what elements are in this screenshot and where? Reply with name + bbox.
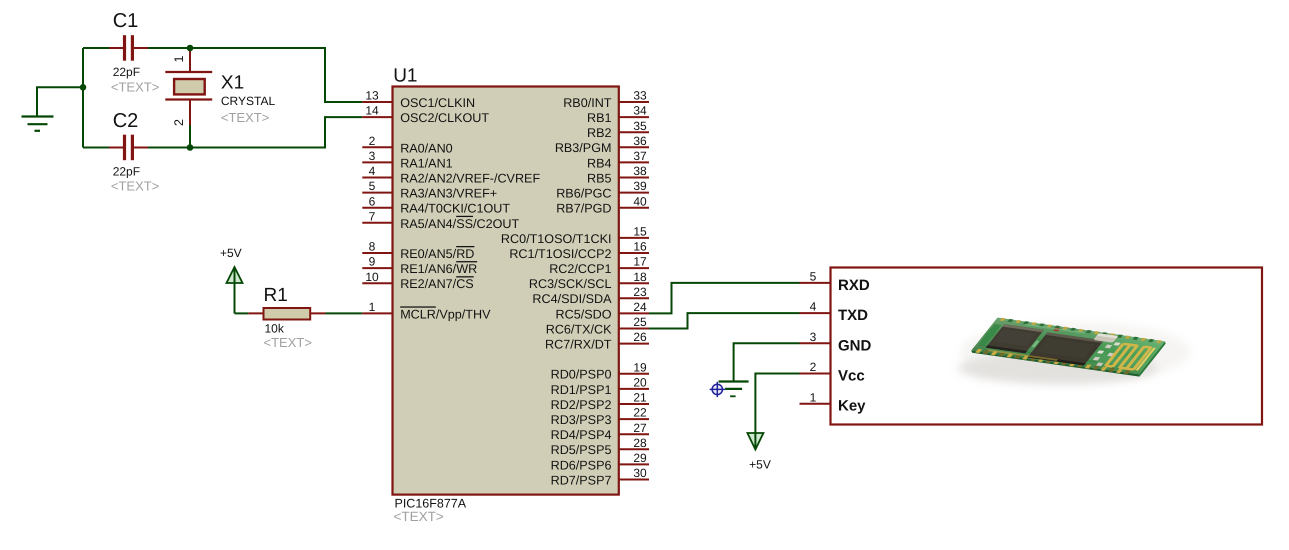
svg-text:9: 9	[369, 255, 376, 269]
module pin 4 TXD	[800, 300, 869, 324]
svg-text:RA2/AN2/VREF-/CVREF: RA2/AN2/VREF-/CVREF	[400, 172, 540, 186]
svg-text:RE0/AN5/RD: RE0/AN5/RD	[400, 247, 474, 261]
svg-text:35: 35	[633, 119, 647, 133]
module pin 3 GND	[800, 330, 872, 354]
svg-text:RD1/PSP1: RD1/PSP1	[551, 383, 612, 397]
svg-text:33: 33	[633, 89, 647, 103]
svg-text:RD6/PSP6: RD6/PSP6	[551, 458, 612, 472]
junction X1 bottom	[187, 144, 194, 151]
wire OSC2 net to pin 14	[190, 117, 362, 147]
U1 pin 7 stub (left)	[362, 209, 519, 230]
svg-text:TXD: TXD	[838, 307, 868, 324]
U1 pin 22 stub (right)	[551, 406, 649, 427]
U1 pin 40 stub (right)	[556, 194, 649, 215]
U1 pin 8 stub (left)	[362, 240, 474, 261]
U1 pin 33 stub (right)	[563, 89, 649, 110]
svg-text:1: 1	[810, 390, 817, 404]
module pin 5 RXD	[800, 270, 870, 294]
U1 pin 15 stub (right)	[501, 225, 649, 246]
svg-text:RC5/SDO: RC5/SDO	[556, 307, 612, 321]
svg-text:1: 1	[172, 56, 186, 63]
svg-text:25: 25	[633, 315, 647, 329]
svg-text:23: 23	[633, 285, 647, 299]
svg-text:22pF: 22pF	[113, 65, 140, 79]
svg-text:RB5: RB5	[587, 171, 612, 185]
svg-text:RA1/AN1: RA1/AN1	[400, 156, 453, 170]
svg-text:Key: Key	[838, 398, 866, 415]
svg-text:15: 15	[633, 225, 647, 239]
U1 pin 14 stub (left)	[362, 104, 489, 125]
svg-text:1: 1	[369, 300, 376, 314]
svg-text:2: 2	[172, 119, 186, 126]
U1 pin 30 stub (right)	[551, 466, 649, 487]
wire C1 right	[148, 47, 190, 49]
wire Vcc pin to +5V	[755, 374, 799, 433]
svg-text:RC6/TX/CK: RC6/TX/CK	[546, 322, 612, 336]
svg-text:C2: C2	[113, 110, 139, 132]
module pin 2 Vcc	[800, 360, 865, 384]
svg-text:<TEXT>: <TEXT>	[221, 110, 269, 125]
U1 pin 34 stub (right)	[587, 104, 649, 125]
wire RC6/TX (pin 25) to TXD	[649, 313, 800, 328]
svg-text:16: 16	[633, 240, 647, 254]
resistor R1	[248, 285, 325, 350]
ground GND2 (module)	[719, 382, 749, 397]
svg-text:RA3/AN3/VREF+: RA3/AN3/VREF+	[400, 187, 497, 201]
svg-text:R1: R1	[264, 285, 288, 306]
U1 pin 29 stub (right)	[551, 451, 649, 472]
svg-text:<TEXT>: <TEXT>	[394, 509, 444, 524]
wire +5V to R1	[235, 312, 249, 314]
U1 pin 37 stub (right)	[587, 149, 649, 170]
U1 pin 24 stub (right)	[556, 300, 649, 321]
U1 pin 25 stub (right)	[546, 315, 649, 336]
svg-text:34: 34	[633, 104, 647, 118]
U1 pin 10 stub (left)	[362, 270, 473, 291]
U1 pin 23 stub (right)	[532, 285, 649, 306]
junction left ground tap	[80, 84, 87, 91]
U1 pin 21 stub (right)	[551, 391, 649, 412]
svg-text:RC7/RX/DT: RC7/RX/DT	[545, 338, 612, 352]
U1 pin 28 stub (right)	[551, 436, 649, 457]
U1 pin 39 stub (right)	[556, 179, 649, 200]
svg-text:3: 3	[810, 330, 817, 344]
U1 pin 5 stub (left)	[362, 179, 497, 200]
svg-text:RC0/T1OSO/T1CKI: RC0/T1OSO/T1CKI	[501, 232, 612, 246]
U1 pin 35 stub (right)	[587, 119, 649, 140]
wire OSC1 net to pin 13	[190, 48, 362, 102]
svg-text:RXD: RXD	[838, 277, 870, 294]
svg-text:20: 20	[633, 376, 647, 390]
svg-text:18: 18	[633, 270, 647, 284]
svg-text:36: 36	[633, 134, 647, 148]
U1 pin 36 stub (right)	[555, 134, 649, 155]
svg-text:8: 8	[369, 240, 376, 254]
power +5V (module, down arrow)	[747, 433, 770, 472]
svg-text:2: 2	[369, 134, 376, 148]
capacitor C2	[83, 110, 159, 194]
wire C2 right	[148, 147, 190, 149]
bluetooth module photo (HC-06 PCB)	[958, 317, 1190, 384]
U1 pin 18 stub (right)	[529, 270, 649, 291]
svg-text:RB2: RB2	[587, 126, 612, 140]
svg-text:RD2/PSP2: RD2/PSP2	[551, 398, 612, 412]
svg-text:RD7/PSP7: RD7/PSP7	[551, 473, 612, 487]
svg-text:RC3/SCK/SCL: RC3/SCK/SCL	[529, 277, 612, 291]
svg-text:RB6/PGC: RB6/PGC	[556, 187, 611, 201]
capacitor C1	[83, 10, 159, 95]
U1 pin 13 stub (left)	[362, 89, 475, 110]
U1 pin 20 stub (right)	[551, 376, 649, 397]
svg-text:C1: C1	[113, 10, 139, 32]
junction X1 top	[187, 45, 194, 52]
origin marker (blue crosshair)	[710, 382, 725, 397]
U1 pin 6 stub (left)	[362, 194, 510, 215]
svg-text:37: 37	[633, 149, 647, 163]
U1 pin 4 stub (left)	[362, 164, 540, 185]
svg-text:21: 21	[633, 391, 647, 405]
svg-text:CRYSTAL: CRYSTAL	[221, 94, 276, 108]
svg-text:10k: 10k	[265, 322, 285, 336]
svg-text:4: 4	[369, 164, 376, 178]
svg-text:17: 17	[633, 255, 647, 269]
crystal X1	[165, 48, 275, 148]
svg-text:RB0/INT: RB0/INT	[563, 96, 612, 110]
svg-text:RE1/AN6/WR: RE1/AN6/WR	[400, 262, 477, 276]
svg-text:26: 26	[633, 330, 647, 344]
svg-text:10: 10	[365, 270, 379, 284]
wire GND pin to ground	[734, 343, 800, 380]
svg-text:RB1: RB1	[587, 111, 612, 125]
svg-text:40: 40	[633, 194, 647, 208]
svg-text:39: 39	[633, 179, 647, 193]
power +5V (left)	[220, 246, 243, 313]
U1 pin 27 stub (right)	[551, 421, 649, 442]
wire RC5/SDO (pin 24) to RXD	[649, 283, 800, 314]
svg-text:22: 22	[633, 406, 647, 420]
svg-text:GND: GND	[838, 337, 872, 354]
U1 pin 17 stub (right)	[549, 255, 649, 276]
svg-text:29: 29	[633, 451, 647, 465]
svg-text:3: 3	[369, 149, 376, 163]
module pin 1 Key	[800, 390, 867, 414]
svg-text:RD0/PSP0: RD0/PSP0	[551, 368, 612, 382]
svg-text:RD5/PSP5: RD5/PSP5	[551, 443, 612, 457]
svg-text:+5V: +5V	[220, 246, 242, 260]
svg-text:RB3/PGM: RB3/PGM	[555, 141, 612, 155]
svg-text:19: 19	[633, 360, 647, 374]
svg-text:RC1/T1OSI/CCP2: RC1/T1OSI/CCP2	[509, 247, 611, 261]
svg-text:U1: U1	[393, 65, 417, 86]
svg-text:6: 6	[369, 194, 376, 208]
svg-text:RB7/PGD: RB7/PGD	[556, 202, 611, 216]
svg-text:38: 38	[633, 164, 647, 178]
svg-text:RA5/AN4/SS/C2OUT: RA5/AN4/SS/C2OUT	[400, 217, 519, 231]
ground GND1 (left of C1/C2)	[22, 87, 84, 131]
svg-text:RC2/CCP1: RC2/CCP1	[549, 262, 611, 276]
svg-text:5: 5	[369, 179, 376, 193]
svg-text:X1: X1	[221, 73, 244, 94]
U1 pin 26 stub (right)	[545, 330, 649, 351]
svg-text:27: 27	[633, 421, 647, 435]
op-amp U1 body (PIC16F877A)	[393, 65, 619, 524]
U1 pin 3 stub (left)	[362, 149, 452, 170]
svg-text:Vcc: Vcc	[838, 368, 865, 385]
svg-text:7: 7	[369, 209, 376, 223]
svg-text:<TEXT>: <TEXT>	[264, 335, 312, 350]
wire R1 to pin 1 (MCLR)	[326, 312, 363, 314]
svg-text:RE2/AN7/CS: RE2/AN7/CS	[400, 277, 474, 291]
svg-text:30: 30	[633, 466, 647, 480]
svg-text:OSC2/CLKOUT: OSC2/CLKOUT	[400, 111, 489, 125]
svg-text:+5V: +5V	[749, 458, 771, 472]
U1 pin 9 stub (left)	[362, 255, 477, 276]
svg-text:<TEXT>: <TEXT>	[111, 179, 159, 194]
U1 pin 2 stub (left)	[362, 134, 452, 155]
U1 pin 38 stub (right)	[587, 164, 649, 185]
bluetooth module box	[831, 268, 1263, 425]
svg-text:RA4/T0CKI/C1OUT: RA4/T0CKI/C1OUT	[400, 202, 510, 216]
svg-text:RB4: RB4	[587, 156, 612, 170]
svg-text:RC4/SDI/SDA: RC4/SDI/SDA	[532, 292, 612, 306]
svg-text:2: 2	[810, 360, 817, 374]
svg-text:RD3/PSP3: RD3/PSP3	[551, 413, 612, 427]
svg-text:4: 4	[810, 300, 817, 314]
svg-text:MCLR/Vpp/THV: MCLR/Vpp/THV	[400, 307, 491, 321]
svg-text:24: 24	[633, 300, 647, 314]
wire left vertical C1-C2	[82, 48, 84, 148]
svg-text:RA0/AN0: RA0/AN0	[400, 141, 453, 155]
U1 pin 19 stub (right)	[551, 360, 649, 381]
svg-text:13: 13	[365, 89, 379, 103]
svg-text:28: 28	[633, 436, 647, 450]
svg-text:RD4/PSP4: RD4/PSP4	[551, 428, 612, 442]
svg-text:5: 5	[810, 270, 817, 284]
svg-text:<TEXT>: <TEXT>	[111, 80, 159, 95]
svg-text:22pF: 22pF	[113, 165, 140, 179]
U1 pin 16 stub (right)	[509, 240, 649, 261]
svg-text:OSC1/CLKIN: OSC1/CLKIN	[400, 96, 475, 110]
svg-text:14: 14	[365, 104, 379, 118]
U1 pin 1 stub (left)	[362, 300, 491, 321]
